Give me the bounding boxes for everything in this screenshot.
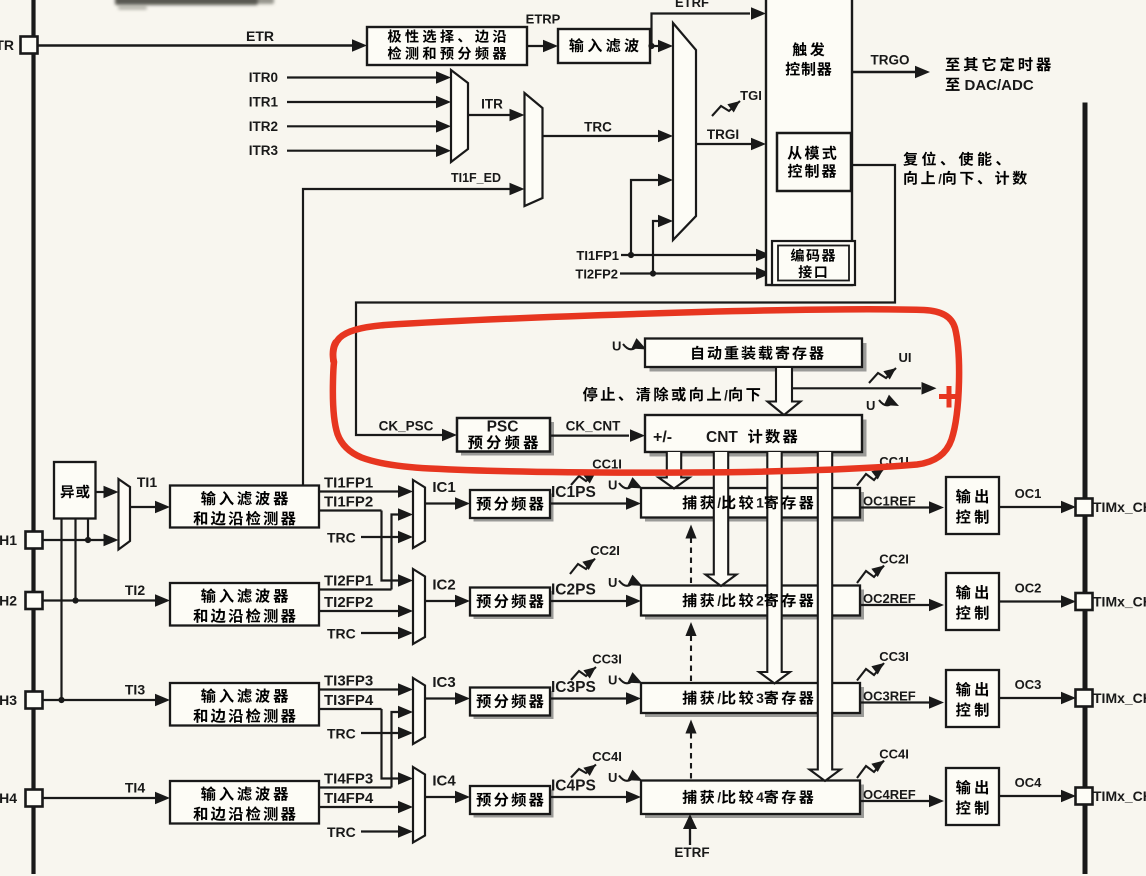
svg-text:U: U bbox=[608, 770, 617, 785]
svg-text:OC1REF: OC1REF bbox=[863, 494, 916, 509]
box polarity select / edge detect / prescaler bbox=[367, 27, 527, 65]
wire OC1REF bbox=[860, 506, 929, 508]
svg-text:ETRF: ETRF bbox=[674, 845, 709, 860]
arrow TI1FP1 into IC1 mux bbox=[398, 485, 413, 498]
box XOR bbox=[54, 462, 96, 519]
box prescaler 1 bbox=[474, 494, 554, 522]
box output control 4 bbox=[946, 768, 999, 825]
wire IC2PS bbox=[550, 600, 627, 602]
wire ETRF up-over to trigger controller bbox=[652, 14, 751, 47]
svg-text:IC4: IC4 bbox=[432, 773, 456, 790]
wire CH2 bbox=[42, 599, 156, 601]
wire IC4PS bbox=[550, 796, 627, 798]
box auto-reload register bbox=[650, 343, 867, 372]
mux IC4 select bbox=[413, 767, 425, 843]
node TI1FP1 branch bbox=[628, 252, 634, 258]
wire dashed compare link 2 bbox=[690, 636, 692, 681]
wire TI1FP2 bbox=[319, 509, 382, 511]
arrow update event right bbox=[922, 382, 937, 395]
interrupt TGI zigzag bbox=[712, 101, 740, 116]
arrow OC3 to pad bbox=[1061, 692, 1076, 705]
box encoder interface bbox=[772, 241, 855, 285]
arrow TRC into trigger mux bbox=[658, 130, 673, 143]
box prescaler 2 bbox=[474, 591, 554, 619]
arrow CH1 into TI1 mux bbox=[104, 534, 119, 547]
wire OC4 bbox=[999, 795, 1062, 797]
node TI2FP2 branch bbox=[650, 270, 656, 276]
arrow CK_CNT into CNT bbox=[630, 429, 645, 442]
wire IC3PS bbox=[550, 697, 627, 699]
arrow OC2REF into output control bbox=[929, 599, 944, 612]
mux trigger selector bbox=[673, 23, 696, 240]
wire IC1PS bbox=[550, 502, 627, 504]
box output control 3 bbox=[946, 670, 999, 727]
svg-text:TGI: TGI bbox=[740, 88, 762, 103]
wire TI1FP1 to encoder bbox=[621, 254, 757, 256]
label capture/compare 1 register bbox=[683, 495, 697, 509]
wire TI3FP4 down to IC4 mux bbox=[382, 709, 401, 779]
svg-text:TIMx_CH3: TIMx_CH3 bbox=[1093, 690, 1146, 706]
wire left bus rail bbox=[31, 0, 35, 874]
box capture/compare 4 register (frame) bbox=[645, 785, 864, 819]
arrow IC4 into prescaler bbox=[455, 791, 470, 804]
svg-text:OC4: OC4 bbox=[1015, 775, 1043, 790]
svg-text:CC3I: CC3I bbox=[592, 652, 622, 667]
svg-text:TI2FP2: TI2FP2 bbox=[324, 594, 373, 611]
wire CH3 bbox=[42, 699, 156, 701]
svg-text:TI2FP2: TI2FP2 bbox=[575, 267, 618, 282]
arrow OC4REF into output control bbox=[929, 795, 944, 808]
svg-text:/: / bbox=[717, 592, 721, 608]
pad TIMx_CH2 (right) bbox=[1076, 593, 1093, 610]
wire OC1 bbox=[999, 506, 1062, 508]
interrupt CC4I right zigzag bbox=[857, 761, 884, 779]
interrupt CC3I right zigzag bbox=[857, 663, 884, 681]
wire IC4 bbox=[425, 796, 456, 798]
arrow TI3 into filter box bbox=[155, 694, 170, 707]
arrow TI1 into filter box bbox=[155, 501, 170, 514]
svg-text:TI4FP3: TI4FP3 bbox=[324, 771, 373, 788]
mux IC3 select bbox=[413, 678, 425, 744]
wire TI1F_ED bbox=[303, 189, 510, 486]
svg-text:ITR: ITR bbox=[481, 97, 503, 112]
arrow mid into IC4 mux bbox=[398, 801, 413, 814]
arrow hollow reload to CNT bbox=[768, 368, 801, 415]
wire TI4FP4 bbox=[319, 806, 404, 808]
wire TRGO bbox=[852, 71, 915, 73]
interrupt CC1I left zigzag bbox=[571, 472, 596, 485]
wire OC2 bbox=[999, 600, 1062, 602]
wire TRC row4 bbox=[361, 830, 404, 832]
arrow hollow CNT to CC3 register bbox=[759, 452, 790, 684]
label capture/compare 3 register bbox=[683, 691, 697, 705]
box capture/compare 1 register (frame) bbox=[645, 492, 864, 522]
box trigger controller bbox=[766, 0, 852, 285]
mux IC2 select bbox=[413, 569, 425, 644]
wire CK_CNT bbox=[550, 434, 629, 436]
arrow ITR into TRC mux bbox=[510, 109, 525, 122]
wire slave-mode control to PSC clock gate bbox=[356, 165, 895, 435]
arrow TI4 into filter box bbox=[155, 792, 170, 805]
svg-text:U: U bbox=[608, 575, 617, 590]
wire TI1FP1 up to trigger mux bbox=[631, 180, 661, 255]
arrow TRC into IC4 mux bbox=[398, 825, 413, 838]
arrow ITR0 into ITR mux bbox=[436, 71, 451, 84]
wire XOR tap CH2 bbox=[74, 519, 76, 601]
svg-text:H1: H1 bbox=[0, 532, 17, 548]
svg-text:OC3REF: OC3REF bbox=[863, 689, 916, 704]
svg-text:CC3I: CC3I bbox=[879, 649, 909, 664]
svg-text:TIMx_CH1: TIMx_CH1 bbox=[1093, 499, 1146, 515]
wire right bus rail bbox=[1083, 103, 1088, 875]
svg-text:ITR2: ITR2 bbox=[249, 119, 278, 134]
arrow IC1PS into register bbox=[626, 497, 641, 510]
svg-text:TRC: TRC bbox=[327, 530, 356, 546]
arrow TI2 into filter box bbox=[155, 594, 170, 607]
pad TIMx_CH1 (right) bbox=[1076, 499, 1093, 516]
label capture/compare 2 register bbox=[683, 593, 697, 607]
arrow OC1REF into output control bbox=[929, 501, 944, 514]
svg-text:TI1F_ED: TI1F_ED bbox=[451, 171, 501, 185]
arrow TI2FP2 into trigger mux bbox=[658, 215, 673, 228]
svg-text:TI4FP4: TI4FP4 bbox=[324, 790, 374, 807]
box slave mode controller bbox=[777, 133, 851, 191]
interrupt CC2I left zigzag bbox=[570, 559, 595, 575]
svg-text:TRC: TRC bbox=[584, 120, 612, 135]
box prescaler 4 bbox=[474, 790, 554, 818]
svg-text:UI: UI bbox=[899, 350, 912, 365]
arrow XOR into TI1 mux bbox=[104, 486, 119, 499]
box output control 2 bbox=[946, 573, 999, 630]
svg-text:H3: H3 bbox=[0, 692, 17, 708]
pad TIMx_CH4 (right) bbox=[1076, 788, 1093, 805]
arrow OC3REF into output control bbox=[929, 696, 944, 709]
wire ETRF from filter to trigger mux bbox=[650, 45, 660, 47]
arrow TI2FP2 into encoder box bbox=[756, 267, 771, 280]
wire ITR2 bbox=[287, 125, 438, 127]
box capture/compare 2 register (frame) bbox=[645, 590, 864, 620]
wire XOR to TI1 mux bbox=[96, 491, 107, 493]
svg-text:U: U bbox=[608, 673, 617, 688]
svg-text:IC4PS: IC4PS bbox=[551, 778, 596, 795]
svg-text:OC3: OC3 bbox=[1015, 677, 1042, 692]
box input filter (ETRP) bbox=[558, 29, 650, 63]
svg-text:CC1I: CC1I bbox=[592, 457, 622, 472]
arrow mid into IC2 mux bbox=[398, 605, 413, 618]
svg-text:TRC: TRC bbox=[327, 626, 356, 642]
arrow TI1FP1 into encoder box bbox=[756, 249, 771, 262]
wire ITR0 bbox=[287, 76, 438, 78]
wire TI1FP1 bbox=[319, 490, 404, 492]
arrow ITR3 into ITR mux bbox=[436, 144, 451, 157]
wire ITR bbox=[468, 114, 510, 116]
svg-text:IC3: IC3 bbox=[432, 674, 455, 691]
label stop/clear/up-down bbox=[583, 387, 597, 401]
svg-text:/: / bbox=[717, 789, 721, 805]
arrow hollow CNT to CC2 register bbox=[706, 452, 737, 586]
svg-text:CC2I: CC2I bbox=[590, 543, 620, 558]
interrupt CC4I left zigzag bbox=[571, 765, 596, 778]
svg-text:/: / bbox=[938, 172, 942, 187]
wire TI2FP1 bbox=[319, 588, 392, 590]
svg-text:TRC: TRC bbox=[327, 824, 356, 840]
svg-text:TI3FP3: TI3FP3 bbox=[324, 673, 373, 690]
box input filter and edge detector 2 bbox=[170, 583, 319, 626]
wire TRC to trigger mux bbox=[543, 135, 661, 137]
interrupt CC1I right zigzag bbox=[857, 468, 884, 486]
box PSC prescaler bbox=[461, 422, 554, 456]
arrow into IC2 mux bbox=[398, 574, 413, 587]
wire TI4FP3 up to IC3 mux bbox=[392, 712, 401, 788]
svg-text:ITR0: ITR0 bbox=[249, 70, 278, 85]
interrupt CC3I left zigzag bbox=[571, 667, 596, 680]
svg-text:TIMx_CH2: TIMx_CH2 bbox=[1093, 594, 1146, 610]
pad TIMx_CH3 (right) bbox=[1076, 690, 1093, 707]
svg-text:CC2I: CC2I bbox=[879, 552, 909, 567]
wire ITR1 bbox=[287, 101, 438, 103]
arrow TI1FP1 into trigger mux bbox=[658, 174, 673, 187]
svg-text:ITR1: ITR1 bbox=[249, 95, 279, 110]
arrow ITR1 into ITR mux bbox=[436, 96, 451, 109]
svg-text:IC1PS: IC1PS bbox=[551, 484, 596, 501]
arrow IC2 into prescaler bbox=[455, 595, 470, 608]
arrow ETRF into trigger controller bbox=[751, 7, 766, 20]
box input filter and edge detector 4 bbox=[170, 781, 319, 824]
svg-text:TI4: TI4 bbox=[125, 780, 145, 796]
arrow IC3PS into register bbox=[626, 692, 641, 705]
mux ITR selector bbox=[451, 70, 468, 162]
svg-text:H4: H4 bbox=[0, 790, 17, 806]
interrupt UI zigzag bbox=[869, 368, 896, 383]
pad ETR bbox=[21, 37, 38, 54]
svg-text:CNT: CNT bbox=[706, 429, 738, 446]
wire OC2REF bbox=[860, 604, 929, 606]
wire TRC row2 bbox=[361, 632, 404, 634]
arrow ETRF into trigger mux bbox=[658, 40, 673, 53]
svg-text:+/-: +/- bbox=[653, 429, 672, 446]
mux TI1 input select bbox=[119, 479, 131, 550]
arrow IC4PS into register bbox=[626, 791, 641, 804]
svg-text:TI1FP1: TI1FP1 bbox=[576, 248, 619, 263]
wire TRGI bbox=[696, 143, 752, 145]
arrow OC2 to pad bbox=[1061, 595, 1076, 608]
wire OC3 bbox=[999, 697, 1062, 699]
svg-text:TRC: TRC bbox=[327, 726, 356, 742]
svg-text:IC3PS: IC3PS bbox=[551, 679, 596, 696]
svg-text:1: 1 bbox=[756, 495, 764, 511]
arrow into input filter box bbox=[543, 40, 558, 53]
svg-text:DAC/ADC: DAC/ADC bbox=[965, 77, 1034, 94]
annotation red circle bbox=[333, 309, 959, 472]
annotation red plus bbox=[939, 386, 960, 408]
svg-text:CC4I: CC4I bbox=[879, 747, 909, 762]
pad TIMx_CH1 (left) bbox=[26, 532, 43, 549]
box output control 1 bbox=[946, 477, 999, 534]
pad TIMx_CH3 (left) bbox=[26, 692, 43, 709]
wire OC3REF bbox=[860, 701, 929, 703]
svg-text:CK_PSC: CK_PSC bbox=[379, 419, 434, 434]
wire OC4REF bbox=[860, 800, 929, 802]
wire CH4 bbox=[42, 797, 156, 799]
wire ETRF bottom bbox=[689, 828, 691, 845]
label to other timers / DAC/ADC bbox=[946, 58, 960, 71]
svg-text:OC2REF: OC2REF bbox=[863, 591, 916, 606]
svg-text:IC2: IC2 bbox=[432, 577, 455, 594]
arrow TRGI into trigger controller bbox=[751, 138, 766, 151]
arrow IC2PS into register bbox=[626, 595, 641, 608]
svg-text:PSC: PSC bbox=[487, 419, 519, 436]
arrow TI3FP3 into IC3 mux bbox=[398, 683, 413, 696]
svg-text:U: U bbox=[866, 398, 875, 413]
svg-text:TI1: TI1 bbox=[137, 474, 157, 490]
arrow IC3 into prescaler bbox=[455, 692, 470, 705]
wire CH1 to TI1 mux bbox=[42, 539, 106, 541]
svg-text:U: U bbox=[608, 478, 617, 493]
wire TI4FP3 bbox=[319, 786, 392, 788]
svg-text:IC2PS: IC2PS bbox=[551, 582, 596, 599]
wire TI2FP1 up to IC1 mux bbox=[392, 515, 401, 590]
wire polarity to input filter bbox=[527, 45, 546, 47]
box CNT counter bbox=[650, 420, 867, 457]
wire IC1 bbox=[425, 502, 456, 504]
wire IC3 bbox=[425, 697, 456, 699]
label reset/enable/up-down/count bbox=[903, 152, 917, 166]
svg-text:TI3: TI3 bbox=[125, 682, 145, 698]
wire IC2 bbox=[425, 600, 456, 602]
wire TI1FP2 down to IC2 mux bbox=[382, 511, 401, 581]
wire TRC row1 bbox=[361, 536, 404, 538]
mux IC1 select bbox=[413, 480, 425, 548]
label capture/compare 4 register bbox=[683, 790, 697, 804]
pad TIMx_CH2 (left) bbox=[26, 592, 43, 609]
box prescaler 3 bbox=[474, 691, 554, 719]
wire ETR bbox=[37, 44, 353, 46]
svg-text:CC4I: CC4I bbox=[592, 749, 622, 764]
svg-text:ETR: ETR bbox=[246, 28, 274, 44]
pad TIMx_CH4 (left) bbox=[26, 790, 43, 807]
node ETRF junction bbox=[648, 43, 654, 49]
annotation red tail bbox=[333, 342, 336, 360]
svg-text:TI1FP1: TI1FP1 bbox=[324, 475, 373, 492]
svg-text:IC1: IC1 bbox=[432, 479, 455, 496]
svg-text:ITR3: ITR3 bbox=[249, 143, 279, 158]
svg-text:TI2FP1: TI2FP1 bbox=[324, 573, 373, 590]
box capture/compare 3 register (frame) bbox=[645, 687, 864, 717]
wire XOR tap CH3 bbox=[60, 519, 62, 701]
box input filter and edge detector 1 bbox=[170, 486, 319, 528]
svg-text:ETR: ETR bbox=[0, 37, 14, 53]
arrow IC1 into prescaler bbox=[455, 497, 470, 510]
wire TI2FP2 up to trigger mux bbox=[653, 221, 661, 274]
arrow OC4 to pad bbox=[1061, 790, 1076, 803]
arrow ITR2 into ITR mux bbox=[436, 120, 451, 133]
svg-text:/: / bbox=[724, 388, 728, 403]
svg-text:4: 4 bbox=[756, 789, 764, 805]
svg-text:/: / bbox=[717, 690, 721, 706]
wire TI2FP2 to encoder bbox=[620, 272, 757, 274]
svg-text:TRGO: TRGO bbox=[871, 53, 910, 68]
arrow mid into IC3 mux bbox=[398, 706, 413, 719]
arrow CK_PSC into PSC bbox=[442, 429, 457, 442]
svg-text:TIMx_CH4: TIMx_CH4 bbox=[1093, 788, 1146, 804]
svg-text:ETRF: ETRF bbox=[675, 0, 709, 10]
svg-text:OC1: OC1 bbox=[1015, 486, 1042, 501]
svg-text:OC4REF: OC4REF bbox=[863, 787, 916, 802]
svg-text:CK_CNT: CK_CNT bbox=[566, 419, 622, 434]
arrow TRC into IC3 mux bbox=[398, 727, 413, 740]
svg-text:U: U bbox=[612, 339, 621, 354]
wire TRC row3 bbox=[361, 732, 404, 734]
box input filter and edge detector 3 bbox=[170, 683, 319, 726]
arrow TI1F_ED into TRC mux bbox=[510, 183, 525, 196]
svg-text:3: 3 bbox=[756, 690, 764, 706]
arrow ETRF into CC4 register bbox=[683, 814, 697, 829]
wire dashed compare link 1 bbox=[690, 538, 692, 583]
arrow into IC4 mux bbox=[398, 772, 413, 785]
wire TI1 to filter bbox=[130, 506, 156, 508]
arrow TRGO out bbox=[915, 66, 930, 79]
arrow TRC into IC1 mux bbox=[398, 531, 413, 544]
svg-text:2: 2 bbox=[756, 592, 764, 608]
svg-text:/: / bbox=[717, 495, 721, 511]
svg-text:TI1FP2: TI1FP2 bbox=[324, 494, 373, 511]
wire ITR3 bbox=[287, 150, 438, 152]
arrow hollow CNT to CC4 register bbox=[810, 452, 841, 781]
arrow hollow CNT to CC1 register bbox=[659, 452, 690, 489]
arrow into polarity box bbox=[352, 39, 367, 52]
svg-text:TI2: TI2 bbox=[125, 582, 145, 598]
wire XOR tap CH1 bbox=[87, 519, 89, 541]
wire update event to right bbox=[792, 387, 921, 389]
top clipped title remnant bbox=[115, 0, 274, 10]
svg-text:H2: H2 bbox=[0, 593, 17, 609]
arrow TRC into IC2 mux bbox=[398, 627, 413, 640]
svg-text:ETRP: ETRP bbox=[526, 12, 561, 27]
svg-text:TI3FP4: TI3FP4 bbox=[324, 692, 374, 709]
svg-text:TRGI: TRGI bbox=[707, 127, 739, 142]
svg-text:OC2: OC2 bbox=[1015, 581, 1042, 596]
arrow OC1 to pad bbox=[1061, 501, 1076, 514]
wire TI3FP3 bbox=[319, 688, 404, 690]
wire TI2FP2 bbox=[319, 610, 404, 612]
mux TRC selector bbox=[525, 93, 543, 206]
interrupt CC2I right zigzag bbox=[857, 566, 884, 584]
wire TI3FP4 bbox=[319, 708, 382, 710]
wire dashed compare link 3 bbox=[690, 734, 692, 779]
arrow mid into IC1 mux bbox=[398, 508, 413, 521]
